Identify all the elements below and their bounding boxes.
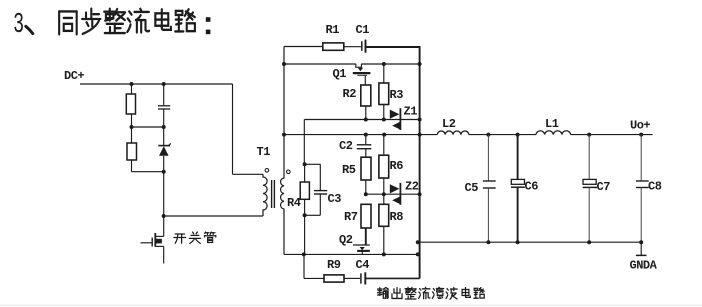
ground GNDA stub — [636, 242, 647, 255]
capacitor C7 electrolytic — [583, 135, 597, 243]
label C4 — [356, 258, 370, 272]
resistor R2 — [361, 85, 371, 120]
label C6 — [525, 180, 539, 194]
junction output bottom left — [416, 240, 420, 244]
wire output bottom rail — [418, 241, 643, 243]
resistor R3 — [379, 64, 389, 120]
resistor lower-left (unlabeled) — [127, 143, 137, 172]
svg-text:GNDA: GNDA — [630, 259, 658, 273]
node DC+ label — [64, 69, 84, 83]
transistor switch MOSFET — [141, 216, 164, 264]
svg-text:Z1: Z1 — [404, 105, 418, 119]
junction snubber branch mid — [162, 125, 166, 129]
svg-text:C6: C6 — [525, 180, 539, 194]
label R7 — [344, 210, 358, 224]
junction top rail at left vertical — [282, 62, 286, 66]
caption: shuchu zhengliu lvbo dianlu (output rectifier filter circuit) — [378, 287, 485, 299]
diode snubber (unlabeled, cathode up) — [158, 143, 171, 216]
svg-text:Z2: Z2 — [405, 180, 419, 194]
svg-text:Q2: Q2 — [339, 233, 353, 247]
wire left branch bottom to drain node — [132, 171, 164, 173]
wire mid rail segment A — [284, 134, 437, 136]
svg-text:L2: L2 — [442, 117, 456, 131]
junction on DC+ rail at R upper branch — [130, 82, 134, 86]
label C2 — [339, 139, 353, 153]
svg-text:3: 3 — [14, 7, 24, 38]
node Uo+ label — [630, 119, 650, 133]
svg-text:L1: L1 — [545, 117, 559, 131]
svg-text:C5: C5 — [465, 181, 479, 195]
svg-text:C1: C1 — [356, 23, 370, 37]
junction C7 tap — [587, 133, 591, 137]
resistor R5 — [361, 157, 371, 194]
svg-text:R4: R4 — [287, 196, 301, 210]
inductor L2 — [437, 131, 469, 135]
svg-text:C3: C3 — [328, 192, 342, 206]
node GNDA label — [630, 259, 658, 273]
junction drain node y172 — [162, 170, 166, 174]
svg-text:R9: R9 — [327, 258, 341, 272]
junction bottom rail R9 tap — [302, 252, 306, 256]
capacitor C4 — [344, 272, 420, 284]
wire primary bottom return — [164, 215, 263, 217]
junction output bottom C7 — [587, 240, 591, 244]
junction output bottom C6 — [516, 240, 520, 244]
transistor Q2 — [353, 245, 370, 254]
svg-text:R8: R8 — [390, 210, 404, 224]
junction mid rail R6 tap — [382, 133, 386, 137]
resistor R4 — [300, 120, 309, 255]
junction mid rail C2 tap — [364, 133, 368, 137]
label R4 — [287, 196, 301, 210]
wire C1 to right vertical (thick) — [366, 46, 420, 48]
faint page edge line — [0, 305, 702, 306]
zener Z1 — [390, 108, 401, 130]
capacitor C5 — [483, 135, 496, 243]
wire middle bottom rail — [284, 253, 418, 255]
capacitor C6 electrolytic — [511, 135, 525, 243]
wire right vertical bus (thick) — [419, 46, 421, 279]
junction Z1 row right vertical — [418, 118, 422, 122]
label R9 — [327, 258, 341, 272]
capacitor C8 — [636, 135, 649, 243]
label R3 — [390, 88, 404, 102]
label C5 — [465, 181, 479, 195]
junction output bottom C8 — [639, 240, 643, 244]
wire top rail right — [361, 63, 419, 65]
label C8 — [648, 180, 662, 194]
label Z2 — [405, 180, 419, 194]
wire R1 to C1 — [344, 46, 361, 48]
wire output rail to Uo+ — [571, 134, 653, 136]
svg-text:R7: R7 — [344, 210, 358, 224]
junction on DC+ rail at snubber branch — [162, 82, 166, 86]
svg-text:T1: T1 — [257, 145, 271, 159]
wire primary top feed — [233, 84, 264, 174]
inductor L1 — [536, 131, 571, 135]
wire cross link y127 — [132, 126, 164, 128]
svg-text:C7: C7 — [597, 180, 611, 194]
resistor R7 — [361, 204, 371, 245]
wire top rail left — [284, 63, 356, 65]
junction Z1 row R3 — [382, 118, 386, 122]
capacitor C2 — [357, 135, 372, 158]
label R8 — [390, 210, 404, 224]
transformer T1 label — [257, 145, 271, 159]
label Q2 — [339, 233, 353, 247]
junction Z1 row R2 — [364, 118, 368, 122]
wire DC+ rail — [80, 83, 233, 85]
transistor Q1 — [353, 64, 371, 85]
label Z1 — [404, 105, 418, 119]
label C1 — [356, 23, 370, 37]
junction top rail R3 tap — [382, 62, 386, 66]
junction bottom rail right vertical — [416, 252, 420, 256]
capacitor snubber (unlabeled) — [158, 84, 170, 145]
junction Z2 row R6R8 — [382, 192, 386, 196]
label L1 — [545, 117, 559, 131]
title text: 3. tongbu zhengliu dianlu (synchronous rectifier circuit) — [14, 7, 211, 38]
svg-text:R6: R6 — [390, 159, 404, 173]
junction Z2 row right vertical — [418, 192, 422, 196]
label C3 — [328, 192, 342, 206]
label R1 — [326, 23, 340, 37]
junction output bottom C5 — [486, 240, 490, 244]
polarity dot secondary — [287, 170, 291, 174]
transformer core — [272, 180, 275, 208]
label L2 — [442, 117, 456, 131]
svg-text:R2: R2 — [343, 87, 357, 101]
label kaiguanguan (switching transistor) — [174, 232, 216, 243]
resistor R9 — [304, 254, 344, 282]
wire R1C1 loop left — [284, 46, 323, 48]
capacitor C1 — [362, 40, 366, 53]
svg-text:Q1: Q1 — [333, 67, 347, 81]
label R2 — [343, 87, 357, 101]
label Q1 — [333, 67, 347, 81]
junction mid rail right vertical — [418, 133, 422, 137]
junction top rail right vertical — [418, 62, 422, 66]
svg-text:C8: C8 — [648, 180, 662, 194]
resistor R1 — [323, 43, 344, 50]
polarity dot primary — [265, 169, 269, 173]
junction C5 tap — [486, 133, 490, 137]
junction left branch mid — [130, 125, 134, 129]
junction mid rail left vertical — [282, 133, 286, 137]
wire mid rail segment B — [469, 134, 536, 136]
wire Z2 row y194 — [366, 193, 420, 195]
junction C6 tap — [516, 133, 520, 137]
svg-text:R1: R1 — [326, 23, 340, 37]
label C7 — [597, 180, 611, 194]
label R5 — [342, 163, 356, 177]
svg-text:C2: C2 — [339, 139, 353, 153]
resistor R6 — [379, 135, 389, 195]
label R6 — [390, 159, 404, 173]
svg-text:Uo+: Uo+ — [630, 119, 650, 133]
capacitor C3 — [305, 164, 328, 215]
junction C8 tap — [639, 133, 643, 137]
svg-text:R3: R3 — [390, 88, 404, 102]
svg-text:C4: C4 — [356, 258, 370, 272]
junction Z2 row R5R7 — [364, 192, 368, 196]
transformer T1 primary winding — [263, 174, 267, 216]
wire Z1 row y119.5 — [304, 119, 419, 121]
svg-text:DC+: DC+ — [64, 69, 84, 83]
resistor upper-left (unlabeled) — [126, 84, 135, 143]
transformer T1 secondary winding — [281, 47, 284, 255]
svg-text:R5: R5 — [342, 163, 356, 177]
resistor R8 — [379, 194, 389, 254]
junction drain node y216 — [162, 214, 166, 218]
zener Z2 — [390, 183, 401, 205]
junction bottom rail R8 — [382, 252, 386, 256]
